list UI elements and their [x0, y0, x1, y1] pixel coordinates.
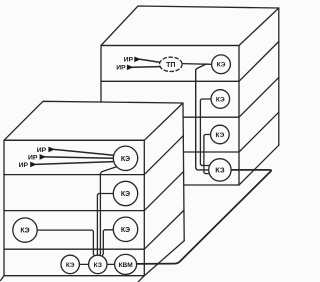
- circle KE1 left box: [113, 146, 137, 170]
- svg-text:КВМ: КВМ: [118, 262, 133, 269]
- circle KE3 right box: [211, 125, 230, 144]
- floor tick bottom-left: [1, 276, 5, 281]
- svg-text:ТП: ТП: [166, 62, 175, 69]
- circle KZ bottom row: [89, 255, 107, 273]
- svg-text:ИР: ИР: [19, 162, 29, 169]
- right box layer line 1: [101, 80, 239, 82]
- IR arrow 3 left box: [36, 162, 114, 165]
- svg-text:КЗ: КЗ: [215, 166, 225, 175]
- svg-text:КЭ: КЭ: [66, 262, 75, 269]
- svg-text:ИР: ИР: [28, 154, 38, 161]
- circle KZ right box: [209, 159, 231, 181]
- circle KE2 right box: [211, 90, 230, 109]
- left box top face: [4, 101, 183, 140]
- wire: TP tap down to KZr: [196, 64, 210, 170]
- circle KVM bottom row: [115, 254, 137, 274]
- IR arrow 1 right box: [140, 59, 160, 62]
- wire: KE3r to KZr: [204, 135, 211, 174]
- wire: bottom row links KZ-KVM: [107, 263, 115, 265]
- circle KE bottom row: [61, 255, 79, 273]
- svg-text:КЭ: КЭ: [121, 191, 130, 198]
- wire: KE2 left-box down to KZ: [97, 194, 113, 256]
- svg-text:ИР: ИР: [116, 65, 126, 72]
- right box front face edges: [101, 46, 239, 186]
- arrowhead IR3 left: [30, 162, 37, 168]
- wire: floor connection KVM to KZr: [137, 170, 272, 264]
- wire: TP to KE1r: [182, 63, 212, 66]
- right box side face: [239, 8, 279, 185]
- right box bottom edge: [184, 184, 239, 186]
- arrowhead IR2 right: [127, 65, 134, 71]
- svg-text:КЭ: КЭ: [217, 62, 226, 69]
- svg-text:КЭ: КЭ: [20, 228, 29, 235]
- wire: KE3 left-box down to KZ: [102, 230, 113, 256]
- arrowhead IR1 right: [134, 57, 141, 63]
- wire: KE2r to KZr: [200, 99, 211, 166]
- circle KE3 left box: [113, 217, 137, 241]
- wire: KE1 left-box down to KZ: [100, 167, 117, 256]
- left box front face edges: [4, 140, 144, 275]
- floor tick bottom-right: [138, 276, 144, 282]
- svg-text:КЭ: КЭ: [216, 96, 225, 103]
- circle KE1 right box: [212, 55, 231, 74]
- svg-text:ИР: ИР: [37, 147, 47, 154]
- IR arrow 1 left box: [54, 149, 114, 155]
- left box side face: [144, 103, 184, 276]
- IR arrow 2 left box: [45, 157, 113, 158]
- arrowhead IR2 left: [40, 154, 47, 160]
- left box layer line 1: [4, 174, 144, 176]
- right box top face: [101, 6, 279, 46]
- svg-text:КЭ: КЭ: [216, 132, 225, 139]
- circle KE2 left box: [113, 181, 137, 205]
- IR arrow 2 right box: [133, 66, 161, 69]
- wire: bottom row links KE-KZ: [79, 263, 88, 265]
- right box layer line 3: [184, 151, 240, 153]
- svg-text:ИР: ИР: [124, 57, 134, 64]
- circle KE-left left box: [13, 218, 37, 242]
- left box layer line 3: [4, 248, 144, 250]
- wire: KE-left to KZ: [37, 230, 94, 256]
- svg-text:КЭ: КЭ: [121, 227, 130, 234]
- dashed ellipse TP: [160, 57, 183, 71]
- right box layer line 2: [184, 116, 240, 118]
- svg-text:КЭ: КЭ: [121, 156, 130, 163]
- svg-text:КЗ: КЗ: [94, 262, 102, 269]
- left box layer line 2: [4, 210, 144, 212]
- arrowhead IR1 left: [48, 147, 55, 153]
